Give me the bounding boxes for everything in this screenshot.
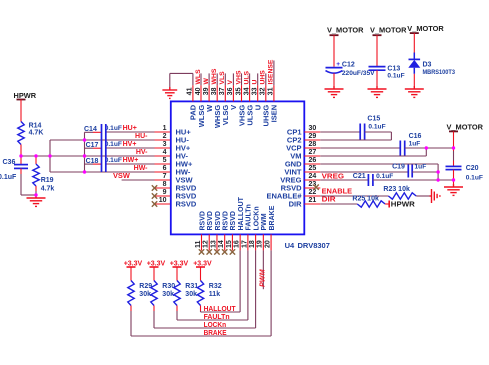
svg-text:11: 11 xyxy=(195,240,202,248)
svg-text:16: 16 xyxy=(234,240,241,248)
svg-text:0.1uF: 0.1uF xyxy=(376,173,393,180)
power flag V_MOTOR (D3) xyxy=(410,32,419,34)
wire C20 to ground xyxy=(453,170,455,184)
power flag HPWR (right) xyxy=(388,201,390,208)
svg-text:36: 36 xyxy=(227,87,234,95)
svg-text:RSVD: RSVD xyxy=(199,211,206,230)
capacitor C12 220uF/35V (polarized) xyxy=(326,67,343,69)
svg-text:+3.3V: +3.3V xyxy=(124,260,143,267)
svg-text:30k: 30k xyxy=(162,291,174,298)
pin 2 stub xyxy=(155,139,171,141)
svg-text:V: V xyxy=(227,80,234,85)
pin 12 stub xyxy=(208,234,210,250)
resistor R19 xyxy=(35,156,37,164)
capacitor C13 0.1uF xyxy=(369,66,386,68)
power flag +3.3V (R32) xyxy=(196,266,205,268)
svg-text:C36: C36 xyxy=(3,159,16,166)
no-connect X pin 10 xyxy=(152,201,157,206)
svg-text:HPWR: HPWR xyxy=(391,200,416,209)
svg-text:30k: 30k xyxy=(185,291,197,298)
wire pin25 VINT to C19 xyxy=(320,171,408,173)
svg-text:21: 21 xyxy=(309,197,317,204)
svg-text:29: 29 xyxy=(309,133,317,140)
svg-text:V_MOTOR: V_MOTOR xyxy=(370,26,407,35)
wire C21 to ground rail xyxy=(373,179,454,181)
svg-text:3: 3 xyxy=(163,141,167,148)
capacitor C16 xyxy=(399,141,401,157)
wire D3 to ground xyxy=(413,74,415,86)
svg-text:10: 10 xyxy=(159,197,167,204)
svg-text:0.1uF: 0.1uF xyxy=(387,73,404,80)
pin 7 stub xyxy=(155,179,171,181)
wire C13 to ground xyxy=(376,70,378,86)
svg-text:19: 19 xyxy=(257,240,264,248)
capacitor C19 xyxy=(407,165,409,178)
svg-text:DIR: DIR xyxy=(322,194,337,203)
pin 26 stub xyxy=(304,163,320,165)
svg-text:12: 12 xyxy=(203,240,210,248)
svg-text:4.7k: 4.7k xyxy=(41,185,55,192)
capacitor C36 xyxy=(20,156,22,164)
pin 10 stub (RSVD no-connect) xyxy=(155,203,171,205)
wire pin5 net HW+ xyxy=(106,163,155,165)
pin 6 stub xyxy=(155,171,171,173)
svg-text:32: 32 xyxy=(260,87,267,95)
wire V_MOTOR to C13 xyxy=(376,35,378,66)
svg-text:HV-: HV- xyxy=(136,149,148,156)
svg-text:R30: R30 xyxy=(162,283,175,290)
svg-text:U4: U4 xyxy=(285,241,295,250)
svg-text:+3.3V: +3.3V xyxy=(193,260,212,267)
cap stub row1 xyxy=(85,131,94,133)
svg-text:31: 31 xyxy=(268,87,275,95)
pin 17 stub xyxy=(247,234,249,250)
pin 31 stub + net stub ISENSE xyxy=(273,61,275,86)
svg-text:WLS: WLS xyxy=(195,69,202,85)
svg-text:R29: R29 xyxy=(139,283,152,290)
svg-text:R23 10k: R23 10k xyxy=(383,186,410,193)
wire pin26 GND to ground drop xyxy=(320,163,438,165)
svg-text:0.1uF: 0.1uF xyxy=(105,141,122,148)
svg-text:C17: C17 xyxy=(86,142,99,149)
svg-text:HALLOUT: HALLOUT xyxy=(238,196,245,230)
wire pin2 net HU- xyxy=(85,139,155,141)
svg-text:26: 26 xyxy=(309,157,317,164)
junction dots xyxy=(19,154,22,157)
svg-text:C13: C13 xyxy=(387,65,400,72)
pin 21 stub xyxy=(304,203,320,205)
svg-text:RSVD: RSVD xyxy=(215,211,222,230)
svg-text:DRV8307: DRV8307 xyxy=(298,241,330,250)
resistor R23 10k xyxy=(388,193,416,199)
svg-text:0.1uF: 0.1uF xyxy=(0,174,17,181)
ground (C12) xyxy=(325,86,344,97)
wire BRAKE xyxy=(131,335,271,337)
svg-text:4.7K: 4.7K xyxy=(29,130,44,137)
cap stub row3 xyxy=(85,147,94,149)
resistor R31 30k xyxy=(174,281,180,306)
wire pin 41 PAD to ground xyxy=(192,73,194,85)
capacitor C20 0.1uF xyxy=(446,165,462,167)
power flag V_MOTOR (C13) xyxy=(373,34,382,36)
svg-text:VREG: VREG xyxy=(322,172,345,181)
pin 32 stub + net stub UHS xyxy=(265,73,267,85)
svg-text:ISEN: ISEN xyxy=(270,105,279,123)
pin 29 stub xyxy=(304,139,320,141)
svg-text:HU+: HU+ xyxy=(123,125,137,132)
wire pin21 DIR to R25 xyxy=(320,203,357,205)
pin 20 stub xyxy=(270,234,272,250)
svg-text:11k: 11k xyxy=(209,291,220,298)
no-connect X pin 12 xyxy=(207,249,212,254)
svg-text:7: 7 xyxy=(163,173,167,180)
svg-text:4: 4 xyxy=(163,149,167,156)
wire LOCKn xyxy=(154,327,256,329)
svg-text:HPWR: HPWR xyxy=(14,91,37,100)
svg-text:17: 17 xyxy=(241,240,248,248)
wire HALLOUT xyxy=(201,311,241,313)
svg-text:UHS: UHS xyxy=(260,70,267,85)
svg-text:C12: C12 xyxy=(342,62,355,69)
ground (rail) xyxy=(444,184,463,195)
svg-text:V_MOTOR: V_MOTOR xyxy=(447,123,484,132)
pin 1 stub xyxy=(155,131,171,133)
svg-text:RSVD: RSVD xyxy=(222,211,229,230)
svg-text:ULS: ULS xyxy=(243,70,250,84)
cap stub row5 xyxy=(85,163,94,165)
no-connect X pin 23 (RSVD) xyxy=(313,185,318,190)
svg-text:5: 5 xyxy=(163,157,167,164)
capacitor C15 xyxy=(359,124,361,140)
svg-text:30k: 30k xyxy=(139,291,151,298)
op-amp/IC U4 DRV8307 body xyxy=(171,101,304,234)
no-connect X pin 11 xyxy=(199,249,204,254)
svg-text:+3.3V: +3.3V xyxy=(170,260,189,267)
ground (PAD) xyxy=(162,87,177,98)
wire pin24 VREG to C21 xyxy=(320,179,368,181)
svg-text:37: 37 xyxy=(219,87,226,95)
svg-text:C21: C21 xyxy=(353,173,366,180)
svg-text:C16: C16 xyxy=(409,133,422,140)
svg-text:V_MOTOR: V_MOTOR xyxy=(407,24,444,33)
no-connect X pin 9 xyxy=(152,193,157,198)
pin 16 stub xyxy=(239,234,241,250)
resistor R25 10k xyxy=(357,201,385,207)
power flag V_MOTOR (C12) xyxy=(330,34,339,36)
svg-text:34: 34 xyxy=(243,87,250,95)
svg-text:RSVD: RSVD xyxy=(176,200,197,209)
pin 39 stub + net stub W xyxy=(208,73,210,85)
svg-text:BRAKE: BRAKE xyxy=(269,205,276,230)
resistor R30 30k xyxy=(151,281,157,306)
ground (D3) xyxy=(405,86,424,97)
no-connect X pin 14 xyxy=(222,249,227,254)
wire R23 to ground xyxy=(416,195,429,197)
wire +3.3V to R29 xyxy=(130,267,132,281)
svg-text:VLS: VLS xyxy=(219,71,226,85)
power flag +3.3V (R31) xyxy=(173,266,182,268)
wire R31 down xyxy=(176,306,178,312)
pin 25 stub xyxy=(304,171,320,173)
svg-text:C19: C19 xyxy=(392,164,405,171)
pin 35 stub + net stub VHS xyxy=(241,73,243,85)
svg-text:13: 13 xyxy=(210,240,217,248)
power flag V_MOTOR (rail) xyxy=(449,130,458,132)
wire pin27 VM up to VCP cap run xyxy=(320,155,426,157)
svg-text:C14: C14 xyxy=(84,126,97,133)
wire C19 to ground drop xyxy=(412,171,438,173)
power flag +3.3V (R29) xyxy=(127,266,136,268)
svg-text:VHS: VHS xyxy=(235,70,242,84)
svg-text:6: 6 xyxy=(163,165,167,172)
svg-text:28: 28 xyxy=(309,141,317,148)
node junction row y156 xyxy=(21,155,85,157)
pin 27 stub xyxy=(304,155,320,157)
wire C12 to ground xyxy=(333,73,335,86)
wire pin19 PWM stub xyxy=(262,250,264,289)
svg-text:1: 1 xyxy=(163,125,167,132)
svg-text:PWM: PWM xyxy=(261,213,268,230)
wire V_MOTOR rail down xyxy=(453,131,455,151)
wire pin1 net HU+ xyxy=(106,131,155,133)
svg-text:C18: C18 xyxy=(86,158,99,165)
wire pin30 CP1 to C15 xyxy=(320,131,360,133)
svg-text:35: 35 xyxy=(235,87,242,95)
svg-text:RSVD: RSVD xyxy=(230,211,237,230)
svg-text:C15: C15 xyxy=(367,116,380,123)
svg-text:0.1uF: 0.1uF xyxy=(105,125,122,132)
svg-text:33: 33 xyxy=(252,87,259,95)
pin 9 stub (RSVD no-connect) xyxy=(155,195,171,197)
resistor R32 11k xyxy=(197,281,203,306)
resistor R14 xyxy=(18,122,24,145)
power flag +3.3V (R30) xyxy=(150,266,159,268)
svg-text:HW-: HW- xyxy=(134,165,149,172)
svg-text:0.1uF: 0.1uF xyxy=(105,157,122,164)
svg-text:R19: R19 xyxy=(41,177,54,184)
svg-text:30: 30 xyxy=(309,125,317,132)
diode D3 MBRS100T3 xyxy=(413,53,415,60)
no-connect X pin 8 xyxy=(152,185,157,190)
pin 15 stub xyxy=(231,234,233,250)
svg-text:RSVD: RSVD xyxy=(207,211,214,230)
wire pin7 net VSW xyxy=(122,179,155,181)
pin 19 stub xyxy=(262,234,264,250)
wire R29 down xyxy=(130,306,132,312)
wire branch x50 up to row2 xyxy=(49,140,51,156)
svg-text:15: 15 xyxy=(226,240,233,248)
wire C15 loop to pin29 CP2 xyxy=(365,131,392,133)
svg-text:40: 40 xyxy=(195,87,202,95)
no-connect X pin 13 xyxy=(214,249,219,254)
svg-text:HU-: HU- xyxy=(135,133,148,140)
svg-text:MBRS100T3: MBRS100T3 xyxy=(423,69,456,76)
wire pin28 VCP to C16 xyxy=(320,147,400,149)
pin 24 stub xyxy=(304,179,320,181)
svg-text:WHS: WHS xyxy=(211,68,218,84)
wire HPWR to R14 xyxy=(20,100,22,122)
svg-text:24: 24 xyxy=(309,173,317,180)
wire R25 to HPWR flag xyxy=(385,203,389,205)
pin 23 stub xyxy=(304,187,320,189)
svg-text:HW+: HW+ xyxy=(123,157,139,164)
svg-text:LOCKn: LOCKn xyxy=(253,206,260,230)
svg-text:+: + xyxy=(336,61,340,68)
svg-text:18: 18 xyxy=(249,240,256,248)
capacitor C14/C17/C18 plates (stacked bars) xyxy=(101,124,103,172)
bias bus vertical x84.5 xyxy=(84,132,86,172)
pin 40 stub + net stub WLS xyxy=(200,73,202,85)
svg-text:25: 25 xyxy=(309,165,317,172)
wire FAULTn xyxy=(177,319,248,321)
pin 13 stub xyxy=(216,234,218,250)
pin 37 stub + net stub VLS xyxy=(224,73,226,85)
wire C16 to V_MOTOR rail xyxy=(405,147,454,149)
wire V_MOTOR to C12 xyxy=(333,35,335,67)
wire R30 down xyxy=(153,306,155,312)
wire branch x50 down to row6 xyxy=(49,156,51,172)
svg-text:FAULTn: FAULTn xyxy=(246,204,253,230)
wire R14 to node xyxy=(20,145,22,157)
svg-text:22: 22 xyxy=(309,189,317,196)
pin 11 stub xyxy=(201,234,203,250)
svg-text:20: 20 xyxy=(264,240,271,248)
wire bottom of C36/R19 to ground xyxy=(21,194,36,196)
svg-text:9: 9 xyxy=(163,189,167,196)
pin 38 stub + net stub WHS xyxy=(216,73,218,85)
svg-text:R31: R31 xyxy=(185,283,198,290)
wire pin6 net HW- xyxy=(85,171,155,173)
svg-text:0.1uF: 0.1uF xyxy=(466,175,483,182)
svg-text:PWM: PWM xyxy=(257,268,266,287)
pin 36 stub + net stub V xyxy=(232,73,234,85)
svg-text:C20: C20 xyxy=(466,165,479,172)
svg-text:27: 27 xyxy=(309,149,317,156)
svg-text:8: 8 xyxy=(163,181,167,188)
svg-text:1uF: 1uF xyxy=(409,141,421,148)
pin 28 stub xyxy=(304,147,320,149)
pin 3 stub xyxy=(155,147,171,149)
svg-text:DIR: DIR xyxy=(289,200,303,209)
capacitor C21 xyxy=(367,174,369,186)
svg-text:HV+: HV+ xyxy=(123,141,137,148)
svg-text:W: W xyxy=(203,78,210,85)
pin 34 stub + net stub ULS xyxy=(249,73,251,85)
ground (left bias) xyxy=(27,195,46,206)
svg-text:ISENSE: ISENSE xyxy=(268,59,275,84)
svg-text:VSW: VSW xyxy=(113,171,130,180)
pin 8 stub (RSVD no-connect) xyxy=(155,187,171,189)
pin 33 stub + net stub U xyxy=(257,73,259,85)
svg-text:D3: D3 xyxy=(423,61,432,68)
svg-text:R32: R32 xyxy=(209,283,222,290)
ground (C13) xyxy=(368,86,387,97)
wire pin3 net HV+ xyxy=(106,147,155,149)
svg-text:V_MOTOR: V_MOTOR xyxy=(327,26,364,35)
wire pin4 net HV- xyxy=(85,155,155,157)
no-connect X pin 15 xyxy=(230,249,235,254)
pin 30 stub xyxy=(304,131,320,133)
wire +3.3V to R32 xyxy=(200,267,202,281)
wire pin22 ENABLE to R23 xyxy=(320,195,388,197)
svg-text:39: 39 xyxy=(203,87,210,95)
svg-text:38: 38 xyxy=(211,87,218,95)
ground (rotated, ENABLE pulldown) xyxy=(430,189,440,203)
svg-text:1uF: 1uF xyxy=(415,164,427,171)
wire +3.3V to R30 xyxy=(153,267,155,281)
svg-text:2: 2 xyxy=(163,133,167,140)
svg-text:0.1uF: 0.1uF xyxy=(368,123,385,130)
power flag HPWR (left) xyxy=(17,99,26,101)
wire V_MOTOR to D3 xyxy=(413,33,415,52)
pin 5 stub xyxy=(155,163,171,165)
pin 4 stub xyxy=(155,155,171,157)
pin 41 stub xyxy=(192,85,194,101)
svg-text:41: 41 xyxy=(187,87,194,95)
svg-text:14: 14 xyxy=(218,240,225,248)
pin 18 stub xyxy=(255,234,257,250)
svg-text:U: U xyxy=(252,80,259,85)
pin 14 stub xyxy=(224,234,226,250)
resistor R29 30k xyxy=(128,281,134,306)
wire R32 down xyxy=(200,306,202,312)
svg-text:R25 10k: R25 10k xyxy=(352,196,379,203)
pin 22 stub xyxy=(304,195,320,197)
svg-text:+3.3V: +3.3V xyxy=(147,260,166,267)
wire +3.3V to R31 xyxy=(176,267,178,281)
